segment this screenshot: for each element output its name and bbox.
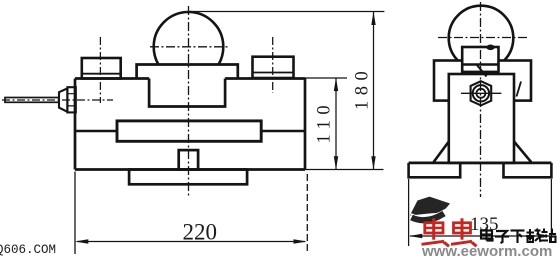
watermark: char dian [481, 228, 493, 241]
dimension 135 extension lines [408, 179, 410, 246]
side view: bolt cross centerline [461, 92, 501, 94]
front view: right boss flange line [253, 72, 294, 74]
svg-text:220: 220 [183, 219, 218, 244]
watermark: red character chong 2 [451, 218, 477, 246]
front view: cable gland [59, 88, 67, 111]
front view: center recess [149, 79, 225, 107]
dimension 180 line [373, 12, 375, 170]
side view: bolt circles [473, 85, 489, 101]
svg-text:Q606.COM: Q606.COM [0, 243, 56, 257]
front view: bottom plate [129, 170, 247, 185]
dimension 180 top extension / leader from ball top [189, 11, 385, 13]
dimension 110 line [335, 78, 337, 170]
front view: loading ball [154, 12, 224, 82]
front view: left boss [82, 58, 121, 79]
front view: body outline [75, 79, 305, 170]
svg-text:110: 110 [315, 100, 335, 144]
front view: nut facet lines [67, 94, 75, 106]
side view: weld diagonal [477, 65, 487, 77]
front view: cable [5, 98, 59, 103]
watermark: cap stripe [411, 210, 446, 217]
svg-text:180: 180 [353, 66, 373, 110]
front view: body split line [75, 130, 305, 132]
side view: loading ball [449, 6, 514, 71]
side view: main column [449, 74, 514, 163]
front view: main vertical centerline [188, 6, 190, 198]
watermark: char zai [526, 229, 541, 243]
side view: ball horizontal centerline [438, 37, 529, 39]
watermark: red character chong 1 [422, 218, 450, 246]
side view: vertical centerline [480, 2, 482, 197]
side view: left gusset [433, 142, 449, 163]
dimension 220 extension lines [74, 172, 76, 255]
front view: left boss centerline [99, 37, 101, 103]
svg-text:135: 135 [470, 214, 499, 235]
side view: right gusset [514, 142, 532, 163]
side view: left foot [409, 163, 461, 177]
side view: hex bolt head [471, 81, 492, 105]
side view: top plate midline [462, 63, 498, 65]
front view: right boss centerline [272, 37, 274, 93]
front view: small center block [179, 150, 198, 169]
side view: weld dot [486, 45, 494, 51]
front view: ball horizontal centerline [150, 46, 229, 48]
front view: right boss [253, 57, 294, 78]
side view: shoulder block [434, 61, 531, 101]
side view: right foot [504, 163, 552, 177]
svg-text:www.eeworm.com: www.eeworm.com [421, 243, 552, 257]
front view: gauge slot cover [117, 121, 261, 141]
watermark: char zhan [541, 229, 556, 243]
front view: gland nut [67, 87, 75, 112]
watermark: cap brim [412, 214, 445, 221]
front view: left boss flange line [82, 73, 121, 75]
front view: cable axis centerline [2, 99, 113, 101]
watermark: graduation cap board [410, 197, 450, 216]
front view: top plate under ball [137, 65, 238, 79]
dimension 135 line [410, 235, 550, 237]
dimension 110 extension lines [305, 77, 347, 79]
side view: top plate [462, 47, 498, 72]
side view: right tick mark [517, 82, 522, 97]
watermark: char zi [495, 231, 509, 243]
dimension 220 line [77, 241, 305, 243]
side view: base plate top [409, 162, 552, 165]
watermark: char xia [511, 231, 525, 244]
